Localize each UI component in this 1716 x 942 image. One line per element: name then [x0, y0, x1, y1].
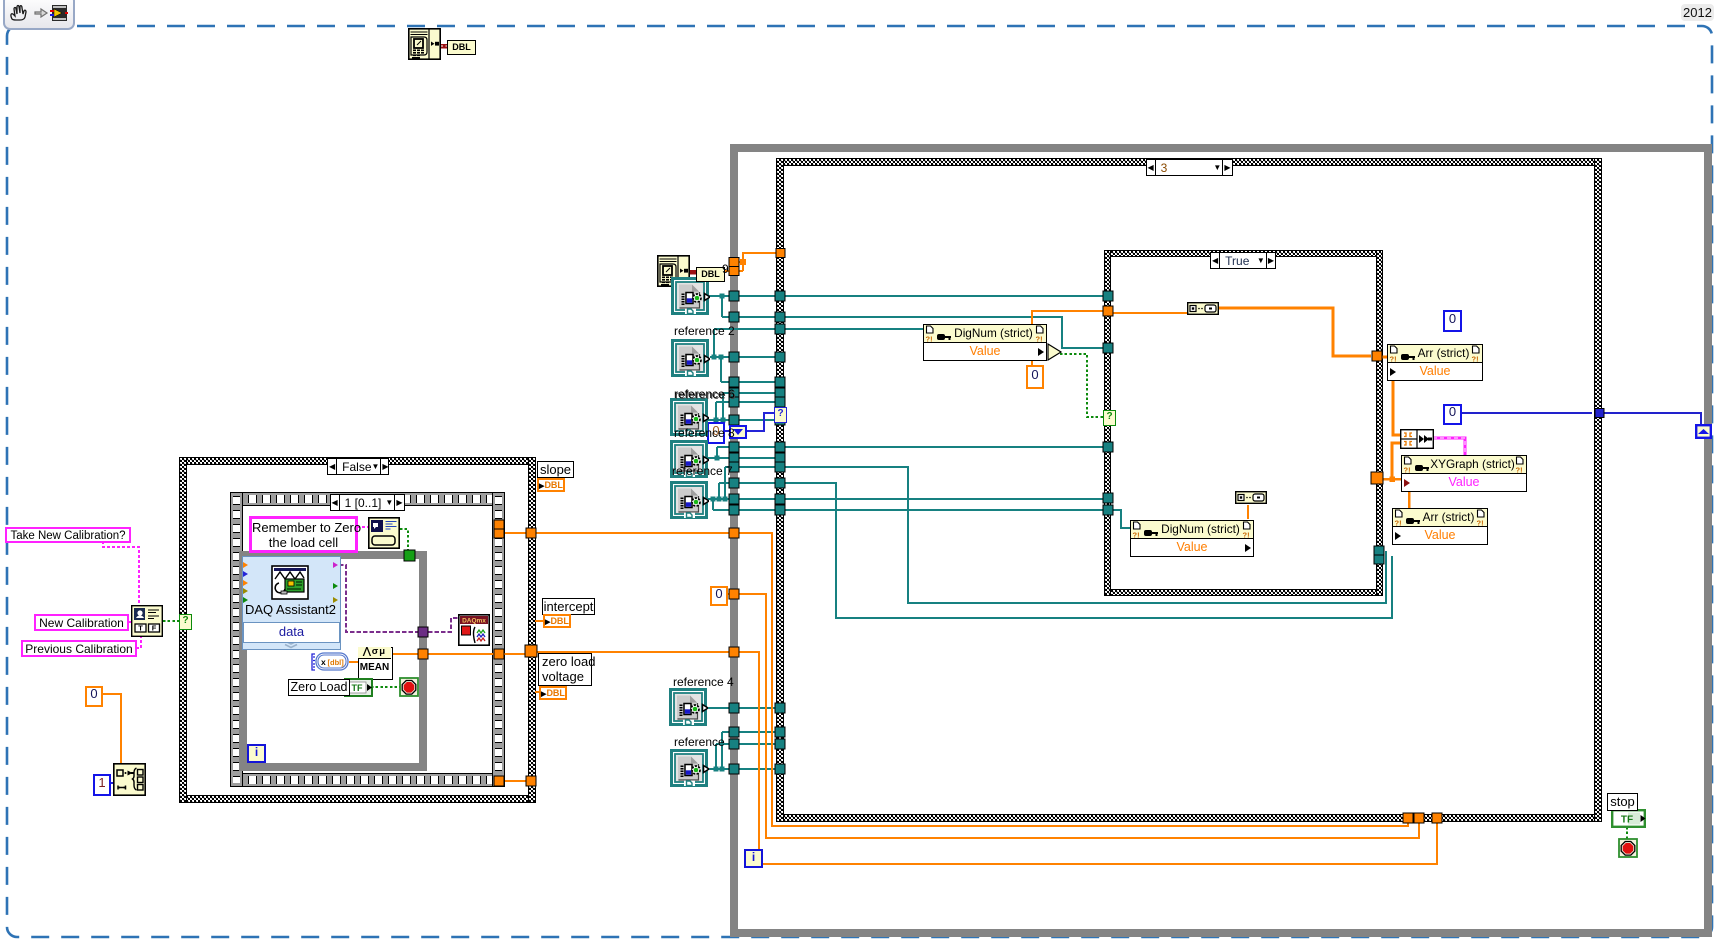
svg-text:F: F [152, 624, 157, 633]
svg-text:?!: ?! [1133, 531, 1140, 539]
svg-text:TF: TF [1621, 815, 1633, 826]
svg-text:DAQmx: DAQmx [462, 618, 486, 625]
svg-text:[dbl]: [dbl] [328, 658, 345, 667]
svg-text:T: T [138, 624, 143, 633]
svg-text:?!: ?! [1036, 335, 1043, 343]
svg-text:?!: ?! [1395, 519, 1402, 527]
svg-text:?!: ?! [1477, 519, 1484, 527]
svg-text:TF: TF [352, 683, 363, 693]
svg-text:?!: ?! [1404, 466, 1411, 474]
svg-text:?!: ?! [1516, 466, 1523, 474]
svg-text:?!: ?! [926, 335, 933, 343]
svg-text:?!: ?! [1243, 531, 1250, 539]
svg-text:x: x [321, 657, 326, 667]
svg-text:?!: ?! [1472, 355, 1479, 363]
svg-text:?!: ?! [1390, 355, 1397, 363]
